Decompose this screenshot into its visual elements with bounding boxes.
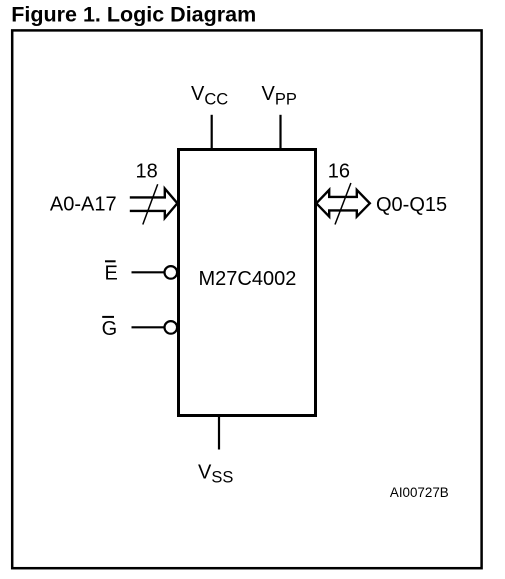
data bus bidirectional arrow (316, 190, 370, 217)
wire VCC lead (211, 115, 213, 150)
svg-text:E: E (105, 262, 118, 284)
svg-text:Figure 1. Logic Diagram: Figure 1. Logic Diagram (11, 2, 256, 26)
address bus slash (143, 184, 158, 224)
svg-text:G: G (102, 318, 118, 340)
address bus arrow into chip (130, 189, 178, 218)
svg-text:Q0-Q15: Q0-Q15 (376, 194, 447, 216)
wire VSS lead (218, 416, 220, 450)
wire E lead (132, 271, 165, 273)
wire VPP lead (279, 115, 281, 150)
svg-text:AI00727B: AI00727B (390, 485, 449, 500)
inversion bubble on E (165, 266, 178, 279)
svg-text:M27C4002: M27C4002 (199, 268, 297, 290)
svg-text:18: 18 (136, 160, 158, 182)
overbar on G (102, 316, 114, 318)
inversion bubble on G (165, 321, 178, 334)
svg-text:16: 16 (328, 160, 350, 182)
EPROM U1 M27C4002 chip outline (179, 150, 316, 416)
overbar on E (105, 260, 116, 262)
data bus slash (335, 183, 351, 225)
wire G lead (132, 326, 165, 328)
svg-text:A0-A17: A0-A17 (50, 194, 117, 216)
